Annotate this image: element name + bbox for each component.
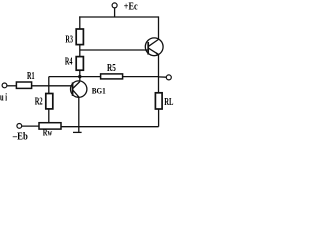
transistor BG1 (71, 81, 87, 97)
svg-text:R5: R5 (107, 63, 116, 74)
node: junction dot on collector node (78, 75, 81, 78)
resistor R5 (101, 74, 123, 79)
wire: +Ec top rail (79, 16, 158, 18)
wire: R1 to BG1 base (32, 85, 73, 87)
wire: +Ec stub (114, 8, 116, 17)
wire: R4 down to collector node (79, 70, 81, 81)
svg-text:RL: RL (164, 97, 173, 108)
resistor R4 (76, 57, 83, 71)
wire: BG2 emitter down to RL (158, 54, 160, 92)
resistor R2 (46, 94, 53, 109)
wire: R3/R4 junction to BG2 base (80, 49, 148, 51)
svg-text:u i: u i (0, 93, 7, 104)
resistor R1 (16, 82, 31, 88)
wire: rail down to R3 (79, 16, 81, 29)
svg-text:R4: R4 (65, 57, 73, 68)
wire: R2 bottom to Rw (48, 109, 50, 123)
terminal output (166, 75, 171, 80)
wire: R2 feedback drop (48, 77, 50, 94)
svg-text:+Ec: +Ec (124, 1, 138, 12)
wire: BG2 collector to top rail (158, 16, 160, 39)
wire: bottom rail (61, 126, 159, 128)
svg-text:BG1: BG1 (92, 87, 106, 96)
svg-text:R1: R1 (27, 71, 35, 82)
potentiometer Rw (39, 123, 61, 129)
wire: RL to bottom rail (158, 109, 160, 127)
wire: output tap (159, 76, 167, 78)
ground (73, 127, 82, 133)
terminal -Eb (17, 124, 22, 129)
wire: collector node left segment to R2 drop (49, 76, 101, 78)
wire: BG1 emitter down to ground rail (78, 97, 80, 127)
svg-text:R2: R2 (35, 96, 43, 107)
svg-text:–Eb: –Eb (12, 132, 28, 143)
resistor RL (155, 93, 162, 109)
terminal ui input (2, 83, 7, 88)
transistor BG2 (145, 38, 163, 56)
wire: R3 to R4 link (79, 45, 81, 57)
svg-text:R3: R3 (65, 35, 73, 46)
wire: input terminal to R1 (7, 85, 17, 87)
svg-text:Rw: Rw (43, 127, 53, 137)
resistor R3 (76, 29, 83, 45)
wire: R5 right to emitter node (123, 76, 159, 78)
terminal +Ec (112, 3, 117, 8)
wire: -Eb terminal to Rw (22, 125, 39, 127)
